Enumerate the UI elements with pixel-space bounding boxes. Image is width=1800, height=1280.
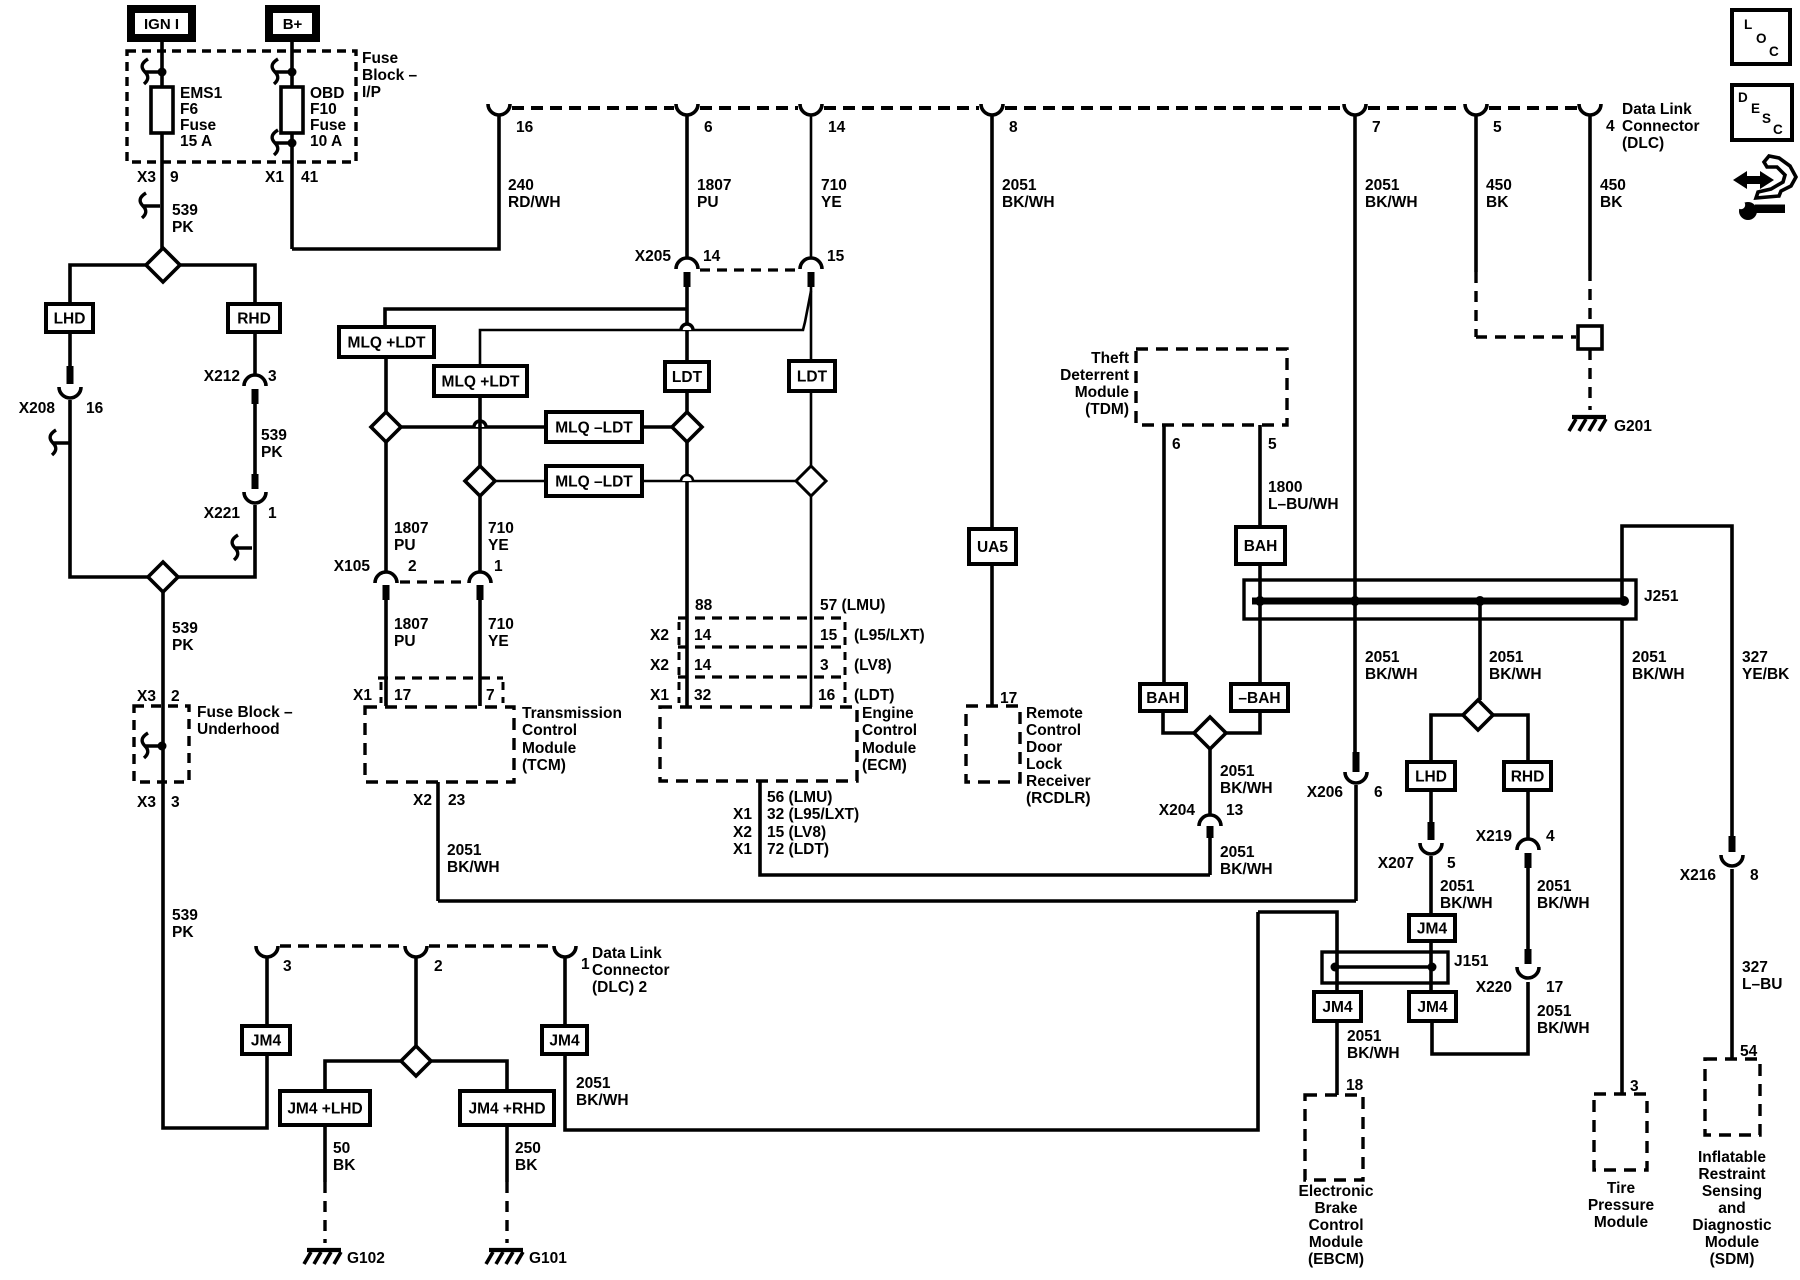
wire LDT right splice down to ECM pin [810,496,813,707]
svg-text:57 (LMU): 57 (LMU) [820,597,885,614]
node BAH (lower) [1140,684,1186,711]
wire MLQ splice down to X105 pin 2 [384,442,388,573]
svg-text:MLQ –LDT: MLQ –LDT [555,474,633,491]
wire crossover hop at 480/427 [474,421,486,427]
svg-text:2051: 2051 [447,842,482,859]
J151 bus bar [1335,965,1432,968]
svg-text:E: E [1751,101,1760,116]
DLC pin 7 connector [1344,104,1366,115]
svg-text:72 (LDT): 72 (LDT) [767,841,829,858]
svg-text:J251: J251 [1644,588,1679,605]
wire J251 to SDM (327 YE/BK) [1622,526,1732,836]
wire MLQ+LDT to splice diamond [384,357,388,412]
svg-text:2: 2 [408,558,417,575]
svg-text:(L95/LXT): (L95/LXT) [854,627,925,644]
wire 450 BK dashed segment (pin 5) [1474,272,1477,337]
svg-text:2051: 2051 [1220,763,1255,780]
theft deterrent module TDM dashed box [1136,349,1287,425]
wire BAH to J251 [1258,564,1262,601]
svg-text:and: and [1718,1200,1746,1217]
node MLQ -LDT (row 1) [546,412,642,442]
svg-text:BK: BK [1600,194,1623,211]
svg-text:539: 539 [261,427,287,444]
connector hook below X221 [232,535,252,560]
node JM4 (DLC2 pin 1) [542,1026,587,1054]
svg-text:(SDM): (SDM) [1710,1251,1755,1268]
fuse OBD F10 10A [281,87,303,133]
svg-text:15 (LV8): 15 (LV8) [767,824,826,841]
node JM4 (upper, LHD path) [1409,915,1455,941]
wire 1807 PU from DLC pin 6 [685,115,689,259]
wire RHD down to X212 [253,332,257,376]
junction block J151 outline [1322,952,1448,983]
tire pressure module dashed box [1594,1094,1647,1170]
wire LHD down to X208 [68,332,72,374]
svg-text:3: 3 [171,794,180,811]
svg-text:7: 7 [486,687,495,704]
node UA5 [969,529,1016,564]
wire 450 BK dashed segment (pin 4) [1588,270,1591,326]
svg-text:BK/WH: BK/WH [576,1092,629,1109]
svg-text:X220: X220 [1476,979,1512,996]
svg-text:3: 3 [820,657,829,674]
DLC2 pin 3 connector [256,946,278,957]
svg-text:1: 1 [494,558,503,575]
svg-text:2051: 2051 [576,1075,611,1092]
svg-text:2051: 2051 [1002,177,1037,194]
svg-text:LHD: LHD [1415,769,1447,786]
svg-text:Diagnostic: Diagnostic [1692,1217,1772,1234]
wire LDT splice down to ECM pin [685,442,689,707]
wire X208 down to corner splice [70,400,148,577]
svg-text:YE: YE [488,537,509,554]
junction block J251 outline [1244,580,1636,619]
power feed box IGN I [131,9,192,38]
svg-text:450: 450 [1600,177,1626,194]
svg-text:JM4: JM4 [1322,999,1353,1016]
svg-text:RD/WH: RD/WH [508,194,561,211]
svg-text:C: C [1769,44,1779,59]
svg-text:Door: Door [1026,739,1062,756]
inline connector X219 [1517,839,1539,850]
svg-text:X1: X1 [650,687,669,704]
svg-text:YE: YE [488,633,509,650]
svg-text:L: L [1744,17,1752,32]
svg-text:JM4: JM4 [549,1033,580,1050]
svg-text:X205: X205 [635,248,672,265]
svg-text:X1: X1 [353,687,372,704]
svg-text:(LV8): (LV8) [854,657,892,674]
svg-text:1800: 1800 [1268,479,1302,496]
connector stub in fuse block (B+ side bottom) [272,130,292,155]
svg-text:32: 32 [694,687,711,704]
connector stub in fuse block (B+ side top) [272,59,292,84]
wire J251 to -BAH [1258,601,1262,684]
svg-text:IGN I: IGN I [144,16,179,33]
svg-text:BK/WH: BK/WH [1632,666,1685,683]
svg-text:MLQ –LDT: MLQ –LDT [555,420,633,437]
svg-text:X1: X1 [265,169,284,186]
X105 pin 1 connector [469,572,491,583]
wire B+ feed down [290,42,294,87]
svg-text:450: 450 [1486,177,1512,194]
inline connector X205 dashed body [700,268,799,271]
svg-text:4: 4 [1606,118,1615,135]
wire 50 BK below JM4+LHD [323,1125,327,1182]
svg-text:539: 539 [172,907,198,924]
svg-text:X1: X1 [733,806,752,823]
node JM4 (lower right, X220 path) [1409,992,1456,1021]
wire RHD to X219 [1526,790,1530,840]
svg-text:G102: G102 [347,1250,385,1267]
svg-text:Data Link: Data Link [592,945,662,962]
svg-text:1807: 1807 [394,520,428,537]
engine control module ECM dashed box [660,707,857,781]
svg-text:23: 23 [448,792,466,809]
splice diamond (LHD/RHD) [1463,700,1493,730]
svg-text:15: 15 [827,248,845,265]
wire splice to LHD (upper) [70,265,146,304]
svg-text:8: 8 [1009,119,1018,136]
wire MLQ-LDT row 2 left [495,480,546,483]
svg-text:(LDT): (LDT) [854,687,894,704]
svg-text:X1: X1 [733,841,752,858]
svg-text:I/P: I/P [362,84,381,101]
svg-text:Module: Module [1705,1234,1760,1251]
svg-text:(DLC) 2: (DLC) 2 [592,979,647,996]
svg-text:Restraint: Restraint [1698,1166,1765,1183]
J251 bus bar [1252,598,1624,605]
node BAH (upper) [1236,527,1285,564]
svg-text:16: 16 [86,400,104,417]
svg-text:2051: 2051 [1632,649,1667,666]
svg-text:Deterrent: Deterrent [1060,367,1129,384]
inline connector X204 [1199,815,1221,826]
node LHD (lower) [1407,762,1455,790]
svg-text:Remote: Remote [1026,705,1083,722]
svg-text:LDT: LDT [797,369,828,386]
wire JM4 lower right to X220 [1432,982,1528,1054]
svg-text:14: 14 [694,627,712,644]
svg-text:X2: X2 [650,627,669,644]
wire BAH lower to splice diamond [1163,711,1194,733]
svg-text:327: 327 [1742,649,1768,666]
svg-text:RHD: RHD [237,311,271,328]
wire X219 to X220 [1526,868,1530,952]
svg-text:Module: Module [522,740,577,757]
legend icon arrows and wrench [1733,171,1774,189]
svg-text:5: 5 [1268,436,1277,453]
TCM pin row separators [380,682,383,703]
node LDT (right) [789,361,835,391]
wire X205 pin15 down to LDT 2 [810,287,813,361]
inline connector X105 dashed body [400,580,466,583]
svg-text:2051: 2051 [1220,844,1255,861]
svg-text:(DLC): (DLC) [1622,135,1664,152]
svg-text:X105: X105 [334,558,371,575]
connector hook below X208 [50,430,70,455]
wire X205 pin15 branch to MLQ +LDT 2 [480,291,811,366]
fuse EMS1 F6 15A [151,87,173,133]
TCM pin row dashed line [378,676,503,679]
wire X212 to X221 (539 PK) [253,404,257,489]
svg-text:Tire: Tire [1607,1180,1636,1197]
svg-text:(RCDLR): (RCDLR) [1026,790,1091,807]
svg-text:2051: 2051 [1347,1028,1382,1045]
inline connector X208 [67,366,74,384]
splice diamond (LDT left) [672,412,702,442]
svg-text:88: 88 [695,597,713,614]
wire X204 to ECM ground bus [1208,838,1212,875]
wire UA5 to RCDLR pin 17 [990,564,994,706]
svg-text:2051: 2051 [1365,177,1400,194]
wire IGN I feed down [160,42,164,87]
svg-text:Control: Control [1308,1217,1363,1234]
inline connector X207 [1428,822,1435,840]
svg-text:YE/BK: YE/BK [1742,666,1790,683]
svg-text:Electronic: Electronic [1299,1183,1374,1200]
DLC pin 4 connector [1579,104,1601,115]
inflatable restraint SDM dashed box [1705,1059,1760,1135]
svg-text:3: 3 [283,958,292,975]
svg-text:MLQ +LDT: MLQ +LDT [348,335,426,352]
svg-text:Module: Module [1309,1234,1364,1251]
svg-text:UA5: UA5 [977,539,1008,556]
wire 2051 BK/WH TCM bus to X206 [438,899,1356,903]
svg-text:MLQ +LDT: MLQ +LDT [442,374,520,391]
wire X205 pin14 down to LDT [685,287,689,362]
svg-text:6: 6 [1172,436,1181,453]
svg-text:BAH: BAH [1146,690,1180,707]
power feed box B+ [269,9,316,38]
wire TCM X2-23 down [436,782,440,901]
X105 pin 2 connector [375,572,397,583]
svg-text:X221: X221 [204,505,241,522]
wire 2051 BK/WH from JM4 to EBCM branch [565,912,1258,1130]
node JM4 +RHD [460,1091,554,1125]
wire J251 to LHD/RHD splice [1478,601,1482,700]
legend box LOC [1732,10,1790,64]
wire 2051 BK/WH from DLC pin 7 to J251 [1353,115,1357,580]
svg-text:17: 17 [394,687,411,704]
svg-text:Control: Control [1026,722,1081,739]
svg-text:F10: F10 [310,101,337,118]
wire X207 to JM4 [1429,856,1433,915]
X205 pin 15 connector [800,258,822,269]
node JM4 +LHD [280,1091,370,1125]
svg-text:X2: X2 [650,657,669,674]
svg-text:Transmission: Transmission [522,705,622,722]
svg-text:50: 50 [333,1140,350,1157]
svg-text:710: 710 [488,520,514,537]
wire MLQ-LDT row 2 right [642,480,796,483]
svg-text:RHD: RHD [1511,769,1545,786]
connector hook below X3 9 [140,193,160,218]
svg-text:14: 14 [703,248,721,265]
svg-text:16: 16 [818,687,836,704]
splice diamond (DLC2 ground split) [401,1046,431,1076]
DLC pin 16 connector [488,104,510,115]
wire splice to LHD [1431,715,1463,762]
svg-text:LDT: LDT [672,369,703,386]
wire 450 BK from DLC pin 4 [1588,115,1592,270]
svg-text:8: 8 [1750,867,1759,884]
svg-text:5: 5 [1493,119,1502,136]
DLC pin 14 connector [800,104,822,115]
DLC2 pin 2 connector [405,946,427,957]
svg-text:Underhood: Underhood [197,721,280,738]
connector stub in fuse block (IGN side) [142,59,162,84]
wire -BAH to splice diamond [1226,711,1260,733]
svg-text:X207: X207 [1378,855,1414,872]
wire MLQ2 splice down to X105 pin 1 [478,496,482,573]
inline connector X216 [1729,836,1736,852]
svg-text:Fuse: Fuse [180,117,217,134]
wire X105 pin2 to TCM pin 17 [384,600,388,706]
wire DLC2 pin 3 to JM4 [265,957,269,1026]
svg-text:PU: PU [697,194,719,211]
splice block square for G201 [1578,326,1602,349]
svg-text:JM4: JM4 [1417,921,1448,938]
dashed wire to ground G102 [323,1182,326,1243]
svg-text:2051: 2051 [1537,878,1572,895]
svg-text:OBD: OBD [310,85,344,102]
svg-text:Receiver: Receiver [1026,773,1091,790]
wire MLQ-LDT row 1 left [401,425,546,429]
svg-text:4: 4 [1546,828,1555,845]
svg-text:BK: BK [515,1157,538,1174]
svg-text:539: 539 [172,620,198,637]
splice diamond (BAH) [1194,717,1226,749]
node JM4 (lower left, EBCM path) [1314,992,1361,1021]
dashed wire to ground G201 [1588,349,1591,410]
wire X105 pin1 to TCM pin 7 [478,600,482,706]
wire LHD to X207 [1429,790,1433,822]
DLC pin 8 connector [981,104,1003,115]
svg-text:(ECM): (ECM) [862,757,907,774]
svg-text:10 A: 10 A [310,133,342,150]
svg-text:G201: G201 [1614,418,1652,435]
splice diamond (539 PK upper) [160,248,164,252]
node JM4 (DLC2 pin 3) [242,1026,290,1054]
svg-text:Brake: Brake [1314,1200,1357,1217]
svg-text:JM4 +LHD: JM4 +LHD [287,1101,362,1118]
svg-text:X204: X204 [1159,802,1196,819]
svg-text:Module: Module [1075,384,1130,401]
svg-text:L–BU/WH: L–BU/WH [1268,496,1339,513]
svg-text:2051: 2051 [1365,649,1400,666]
svg-text:Fuse: Fuse [310,117,347,134]
remote control door lock receiver RCDLR dashed box [966,706,1020,782]
svg-text:710: 710 [821,177,847,194]
svg-text:710: 710 [488,616,514,633]
svg-text:BK/WH: BK/WH [1220,861,1273,878]
svg-text:Connector: Connector [1622,118,1700,135]
wire OBD fuse down to corner [290,133,294,249]
wire 240 RD/WH from OBD fuse to DLC pin 16 [292,115,499,249]
wire JM4 lower left to EBCM [1335,1021,1339,1095]
svg-text:BK/WH: BK/WH [1347,1045,1400,1062]
DLC pin 6 connector [676,104,698,115]
node RHD (lower) [1504,762,1551,790]
svg-text:D: D [1738,90,1748,105]
svg-text:13: 13 [1226,802,1244,819]
svg-text:Fuse: Fuse [362,50,399,67]
svg-text:X219: X219 [1476,828,1513,845]
svg-text:32 (L95/LXT): 32 (L95/LXT) [767,806,859,823]
svg-text:327: 327 [1742,959,1768,976]
wire MLQ-LDT row 1 right [642,425,672,429]
svg-text:Lock: Lock [1026,756,1063,773]
ground G101 [489,1248,523,1252]
svg-text:14: 14 [694,657,712,674]
svg-text:X3: X3 [137,794,156,811]
svg-text:Pressure: Pressure [1588,1197,1655,1214]
wire TDM pin 5 to BAH (1800 L-BU/WH) [1258,425,1262,527]
svg-text:BK/WH: BK/WH [1440,895,1493,912]
svg-text:3: 3 [268,368,277,385]
wire 250 BK below JM4+RHD [505,1125,509,1182]
svg-text:2: 2 [171,688,180,705]
ECM pin row separators [678,622,681,703]
svg-text:(TCM): (TCM) [522,757,566,774]
svg-text:X2: X2 [413,792,432,809]
svg-text:X2: X2 [733,824,752,841]
svg-text:14: 14 [828,119,846,136]
fuse block I/P dashed outline [127,51,356,162]
svg-text:PU: PU [394,633,416,650]
svg-text:L–BU: L–BU [1742,976,1782,993]
wire ECM ground output [760,781,1210,875]
DLC pin 5 connector [1465,104,1487,115]
svg-text:6: 6 [1374,784,1383,801]
svg-text:JM4: JM4 [1417,999,1448,1016]
connector hook inside underhood fuse block [142,733,162,758]
svg-text:PK: PK [172,637,194,654]
svg-text:Data Link: Data Link [1622,101,1692,118]
svg-text:PK: PK [172,924,194,941]
svg-text:BK/WH: BK/WH [1002,194,1055,211]
wire 2051 BK/WH from DLC pin 8 to UA5 [990,115,994,529]
svg-text:(EBCM): (EBCM) [1308,1251,1364,1268]
svg-text:18: 18 [1346,1077,1364,1094]
svg-text:2051: 2051 [1537,1003,1572,1020]
node MLQ +LDT (left) [339,327,434,357]
svg-text:BK/WH: BK/WH [447,859,500,876]
svg-text:Control: Control [862,722,917,739]
svg-text:BK/WH: BK/WH [1489,666,1542,683]
svg-text:X208: X208 [19,400,56,417]
wire LDT 2 down to splice [810,391,813,466]
svg-text:BK/WH: BK/WH [1365,666,1418,683]
inline connector X221 [252,474,259,489]
svg-text:41: 41 [301,169,319,186]
wire J251 to tire pressure module [1620,619,1624,1094]
wire crossover hop at 687/481 [681,475,693,481]
svg-text:PU: PU [394,537,416,554]
wire crossover hop at 687/330 [681,324,693,330]
svg-text:Engine: Engine [862,705,914,722]
svg-text:X3: X3 [137,169,156,186]
node MLQ +LDT (second) [434,366,527,396]
svg-text:2051: 2051 [1440,878,1475,895]
wire X206 to TCM bus [1354,785,1358,901]
svg-text:X216: X216 [1680,867,1717,884]
svg-text:JM4 +RHD: JM4 +RHD [468,1101,545,1118]
svg-text:2051: 2051 [1489,649,1524,666]
wire splice to JM4+LHD [325,1061,401,1091]
transmission control module TCM dashed box [365,707,514,782]
